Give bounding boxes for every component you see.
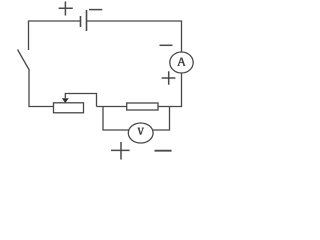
battery cell: long positive plate <box>86 10 88 31</box>
wire ammeter bottom down to lower-right corner <box>158 73 182 107</box>
ammeter minus label <box>160 44 173 46</box>
ammeter plus label <box>162 71 176 85</box>
voltmeter plus label <box>111 142 130 160</box>
battery plus label <box>59 2 73 16</box>
rheostat box <box>54 103 84 113</box>
rheostat wiper hook wire <box>65 94 96 107</box>
voltmeter letter V <box>138 128 145 135</box>
wire voltmeter left branch <box>103 107 129 131</box>
battery cell: short negative plate <box>80 16 82 27</box>
battery minus label <box>89 9 102 11</box>
wire battery to top-right corner <box>87 21 182 52</box>
resistor R box <box>127 103 158 110</box>
voltmeter V body <box>128 123 153 143</box>
wire rheostat wiper to resistor R <box>97 106 127 108</box>
wire top-left horizontal <box>29 21 81 50</box>
voltmeter minus label <box>155 150 172 152</box>
wire left vertical below switch <box>29 71 54 107</box>
rheostat wiper arrow head <box>62 98 69 103</box>
wire voltmeter right branch <box>153 107 170 131</box>
ammeter A body <box>170 52 193 73</box>
switch S (open blade) <box>18 50 30 71</box>
ammeter letter A <box>178 58 186 66</box>
